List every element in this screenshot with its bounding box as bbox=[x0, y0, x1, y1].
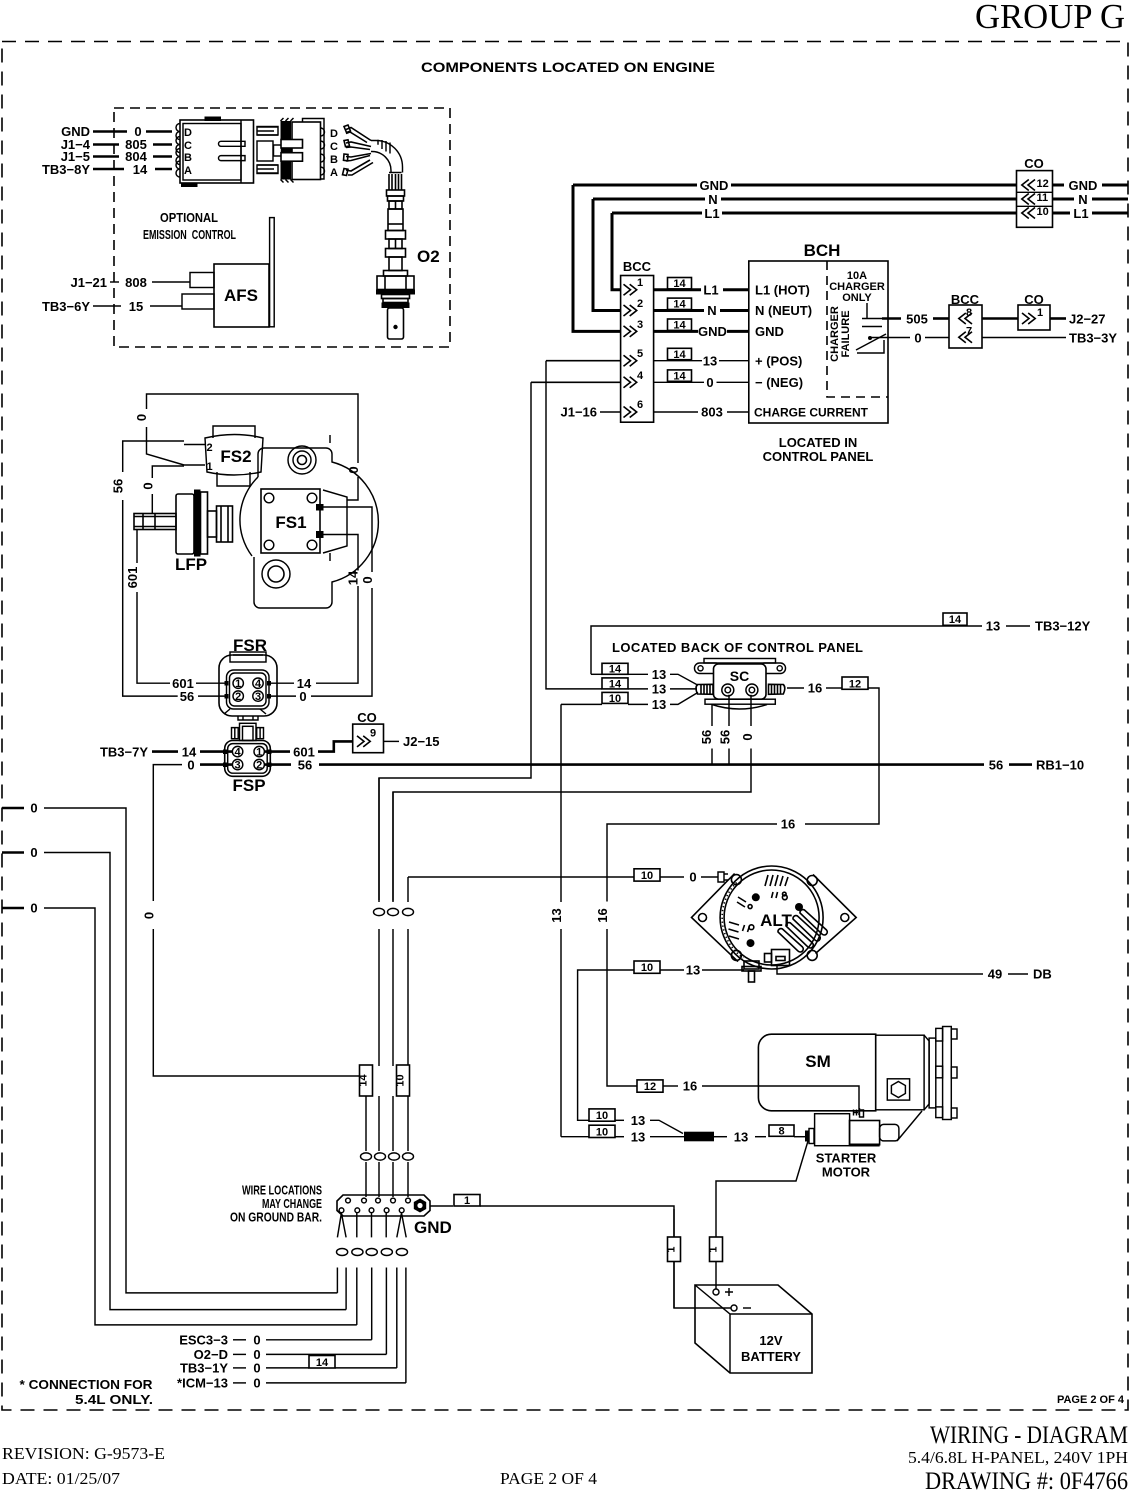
wire 601 (FSP pin1 to CO9) bbox=[264, 750, 290, 753]
main circles bbox=[720, 866, 823, 969]
svg-text:FSP: FSP bbox=[232, 776, 265, 795]
svg-text:14: 14 bbox=[949, 614, 962, 626]
svg-text:L1: L1 bbox=[703, 283, 718, 298]
wire 56 (FS2 pin2 down to FSR pin2) bbox=[123, 441, 184, 472]
svg-text:1: 1 bbox=[1037, 307, 1043, 319]
svg-text:0: 0 bbox=[914, 330, 921, 345]
svg-text:MOTOR: MOTOR bbox=[822, 1165, 871, 1180]
pin 1 bbox=[233, 678, 243, 688]
svg-text:ESC3−3: ESC3−3 bbox=[179, 1333, 228, 1348]
connector CO (pin 9) bbox=[353, 710, 384, 753]
pin 8 bbox=[959, 313, 972, 324]
pin 7 bbox=[959, 332, 972, 343]
svg-text:12: 12 bbox=[1037, 178, 1049, 190]
pin 3 bbox=[624, 326, 637, 337]
pin 2 bbox=[233, 691, 243, 701]
wire 13 fuse row1 bbox=[589, 1109, 615, 1121]
svg-text:CONTROL PANEL: CONTROL PANEL bbox=[763, 449, 874, 464]
svg-text:J1−21: J1−21 bbox=[70, 275, 107, 290]
svg-text:10: 10 bbox=[596, 1126, 608, 1138]
svg-text:0: 0 bbox=[30, 845, 37, 860]
pin 2 bbox=[624, 305, 637, 316]
pin 4 bbox=[232, 746, 242, 756]
svg-text:0: 0 bbox=[134, 414, 149, 421]
wire GND BCC3-BCH with gauge 14 bbox=[668, 319, 692, 330]
svg-text:LFP: LFP bbox=[175, 555, 207, 574]
wire 0 stub1 (left border) bbox=[2, 807, 24, 810]
solenoid FS2 bbox=[184, 426, 263, 486]
svg-text:L1: L1 bbox=[1073, 206, 1088, 221]
gauge 10 (vertical, ground wires) bbox=[397, 1065, 410, 1096]
svg-text:0: 0 bbox=[30, 901, 37, 916]
relay SC (starter contactor) bbox=[695, 659, 786, 710]
svg-text:*ICM−13: *ICM−13 bbox=[177, 1376, 228, 1391]
svg-text:TB3−6Y: TB3−6Y bbox=[42, 299, 90, 314]
svg-text:TB3−8Y: TB3−8Y bbox=[42, 162, 90, 177]
wire to J2-15 bbox=[384, 740, 400, 742]
svg-text:ALT: ALT bbox=[760, 911, 792, 930]
connector BCC (pins 1,2,3,5,4,6) bbox=[621, 259, 654, 422]
connector J (mating half with seals) bbox=[257, 118, 338, 183]
wire 0 from BCC4 going left bbox=[531, 381, 621, 383]
svg-text:3: 3 bbox=[235, 760, 241, 772]
svg-text:505: 505 bbox=[906, 312, 928, 327]
svg-text:14: 14 bbox=[346, 570, 361, 585]
svg-text:− (NEG): − (NEG) bbox=[755, 375, 803, 390]
svg-text:14: 14 bbox=[297, 676, 312, 691]
drive housing bbox=[876, 1035, 924, 1110]
svg-text:0: 0 bbox=[740, 733, 755, 740]
wire 16 (SC to SM) bbox=[787, 687, 804, 689]
svg-text:1: 1 bbox=[708, 1246, 720, 1252]
solenoid (starter) bbox=[805, 1111, 922, 1147]
svg-text:4: 4 bbox=[235, 747, 242, 759]
svg-text:EMISSION CONTROL: EMISSION CONTROL bbox=[143, 227, 236, 242]
svg-text:5.4L ONLY.: 5.4L ONLY. bbox=[75, 1392, 153, 1407]
connector BCC (pins 8,7) bbox=[949, 292, 982, 348]
wire 805 row bbox=[93, 143, 119, 146]
svg-text:12: 12 bbox=[644, 1081, 656, 1093]
svg-text:ON GROUND BAR.: ON GROUND BAR. bbox=[230, 1210, 322, 1225]
svg-text:AFS: AFS bbox=[224, 286, 258, 305]
pin 1 bbox=[254, 746, 264, 756]
taper + mounting plates bbox=[924, 1035, 929, 1110]
pin 10 bbox=[1022, 208, 1035, 219]
svg-text:C: C bbox=[184, 140, 192, 152]
wire 0 from BCH NEG down-left bbox=[379, 382, 531, 900]
connector plug on ALT bbox=[765, 950, 790, 966]
wire 0 (FS1 upper tab to FSR pin3) bbox=[324, 507, 373, 572]
svg-text:10: 10 bbox=[641, 870, 653, 882]
svg-text:L1 (HOT): L1 (HOT) bbox=[755, 283, 810, 298]
svg-text:3: 3 bbox=[637, 319, 643, 331]
svg-text:GND: GND bbox=[698, 324, 727, 339]
vent slots right (long) bbox=[778, 910, 827, 952]
wire 13 from BCC5 going left bbox=[546, 360, 621, 362]
svg-text:A: A bbox=[184, 165, 192, 177]
svg-text:* CONNECTION FOR: * CONNECTION FOR bbox=[20, 1377, 154, 1392]
svg-text:0: 0 bbox=[689, 870, 696, 885]
svg-text:0: 0 bbox=[30, 801, 37, 816]
wire entry notches bbox=[223, 750, 228, 755]
svg-text:OPTIONAL: OPTIONAL bbox=[160, 210, 218, 225]
svg-text:GND: GND bbox=[1069, 178, 1098, 193]
wire N (left of CO) bbox=[593, 198, 705, 201]
oval splices above bar bbox=[361, 1153, 372, 1160]
emission control dashed box bbox=[114, 108, 450, 347]
wire 14 (TB3-7Y to FSP pin4) bbox=[152, 750, 178, 753]
wire 56 drops from SC bbox=[711, 705, 713, 764]
svg-text:1: 1 bbox=[637, 277, 643, 289]
wire 49 (ALT plug to DB) bbox=[777, 966, 983, 975]
svg-text:STARTER: STARTER bbox=[816, 1151, 877, 1166]
bottom tab bbox=[238, 716, 258, 720]
knurl ticks on left arc bbox=[722, 883, 743, 959]
svg-text:SC: SC bbox=[730, 668, 749, 684]
O2 sensor body bbox=[376, 173, 415, 340]
pin 11 bbox=[1022, 194, 1035, 205]
wires into bar top (0 group) bbox=[365, 1096, 367, 1197]
svg-text:ONLY: ONLY bbox=[842, 292, 872, 304]
svg-text:BCC: BCC bbox=[623, 259, 652, 274]
ground stud (hex) bbox=[414, 1199, 426, 1213]
svg-text:D: D bbox=[184, 127, 192, 139]
svg-text:9: 9 bbox=[370, 728, 376, 740]
wire 601 (LFP to FSR pin1) bbox=[136, 530, 138, 564]
svg-text:14: 14 bbox=[609, 678, 622, 690]
svg-text:16: 16 bbox=[781, 817, 795, 832]
svg-text:7: 7 bbox=[966, 326, 972, 338]
svg-text:13: 13 bbox=[549, 908, 564, 922]
svg-text:A: A bbox=[330, 167, 338, 179]
svg-text:13: 13 bbox=[652, 682, 666, 697]
gauge 14 (vertical, ground wires) bbox=[360, 1065, 373, 1096]
wire N BCC2-BCH with gauge 14 bbox=[668, 298, 692, 309]
svg-text:GND: GND bbox=[755, 324, 784, 339]
pin bumps left bbox=[176, 124, 180, 178]
pin 12 bbox=[1022, 180, 1035, 191]
svg-text:10: 10 bbox=[1037, 206, 1049, 218]
svg-text:5.4/6.8L H-PANEL, 240V 1PH: 5.4/6.8L H-PANEL, 240V 1PH bbox=[908, 1448, 1128, 1467]
svg-text:REVISION: G-9573-E: REVISION: G-9573-E bbox=[2, 1444, 165, 1463]
svg-text:4: 4 bbox=[255, 678, 262, 690]
svg-text:6: 6 bbox=[637, 399, 643, 411]
svg-text:B: B bbox=[330, 154, 338, 166]
vent slots left bbox=[729, 897, 750, 939]
wire 0 drop from SC bbox=[393, 695, 751, 901]
svg-text:56: 56 bbox=[989, 757, 1003, 772]
svg-text:15: 15 bbox=[129, 299, 143, 314]
BCH internal dashed divider bbox=[827, 261, 888, 397]
O2 sensor pigtail wires bbox=[343, 125, 374, 176]
bolt boss bottom bbox=[262, 560, 290, 588]
svg-text:14: 14 bbox=[673, 349, 686, 361]
wire 13 fuse row2 (from SC) bbox=[561, 1136, 589, 1138]
svg-text:0: 0 bbox=[140, 482, 155, 489]
svg-text:13: 13 bbox=[986, 619, 1000, 634]
svg-text:TB3−12Y: TB3−12Y bbox=[1035, 619, 1091, 634]
wire 16 into starter solenoid bbox=[637, 1080, 663, 1092]
wire 13 vertical run bbox=[560, 704, 562, 902]
svg-text:14: 14 bbox=[673, 370, 686, 382]
svg-text:GROUP G: GROUP G bbox=[975, 0, 1125, 36]
svg-text:56: 56 bbox=[718, 730, 733, 744]
svg-text:13: 13 bbox=[686, 963, 700, 978]
connector J (engine harness, left half) bbox=[176, 117, 254, 188]
svg-text:13: 13 bbox=[734, 1129, 748, 1144]
gauge 1 (battery - wire) bbox=[668, 1237, 681, 1262]
svg-text:BCH: BCH bbox=[804, 241, 841, 260]
terminal + bbox=[713, 1289, 719, 1295]
pin 6 bbox=[624, 407, 637, 418]
svg-text:1: 1 bbox=[464, 1195, 470, 1207]
solenoid terminal bbox=[805, 1131, 809, 1142]
svg-text:TB3−7Y: TB3−7Y bbox=[100, 744, 148, 759]
svg-text:10: 10 bbox=[641, 962, 653, 974]
pin bumps right bbox=[321, 128, 325, 175]
wire 0 stub3 (left border) bbox=[2, 907, 24, 910]
svg-text:B: B bbox=[184, 152, 192, 164]
fuse (inline, black) bbox=[684, 1132, 714, 1142]
pin 5 bbox=[624, 355, 637, 366]
svg-text:FS1: FS1 bbox=[275, 513, 306, 532]
svg-text:8: 8 bbox=[966, 307, 972, 319]
svg-text:13: 13 bbox=[703, 353, 717, 368]
wire 14 row bbox=[93, 168, 124, 171]
wire to J2-27 bbox=[1050, 317, 1066, 320]
wire N drop to BCC pin2 bbox=[593, 199, 621, 311]
wire 13 (SC to TB3-12Y) bbox=[591, 626, 982, 674]
terminal tabs right bbox=[316, 504, 324, 511]
svg-text:GND: GND bbox=[414, 1218, 452, 1237]
pin 4 bbox=[253, 678, 263, 688]
svg-text:0: 0 bbox=[253, 1376, 260, 1391]
svg-text:1: 1 bbox=[235, 678, 241, 690]
svg-text:GND: GND bbox=[700, 178, 729, 193]
svg-text:803: 803 bbox=[701, 405, 723, 420]
svg-text:C: C bbox=[330, 141, 338, 153]
svg-text:1: 1 bbox=[666, 1246, 678, 1252]
sensor AFS bbox=[182, 218, 274, 327]
wire N (right of CO) bbox=[1053, 198, 1075, 201]
regulator FS1 bbox=[261, 489, 320, 553]
svg-text:8: 8 bbox=[778, 1126, 784, 1138]
wire battery - to ground stud bbox=[674, 1209, 731, 1308]
wire GND (bar to battery -) bbox=[430, 1205, 453, 1207]
wire GND drop to BCC pin3 bbox=[573, 185, 621, 331]
vent slots top bbox=[765, 875, 788, 886]
svg-text:0: 0 bbox=[299, 689, 306, 704]
svg-text:TB3−3Y: TB3−3Y bbox=[1069, 330, 1117, 345]
pin 4 bbox=[624, 377, 637, 388]
svg-text:LOCATED BACK OF CONTROL PANEL: LOCATED BACK OF CONTROL PANEL bbox=[612, 640, 863, 655]
gauge 1 (battery + wire) bbox=[710, 1237, 723, 1262]
prong cuts bbox=[281, 140, 303, 149]
pin 1 bbox=[1022, 313, 1035, 324]
bolt rings bbox=[731, 875, 741, 885]
svg-text:56: 56 bbox=[180, 689, 194, 704]
svg-text:14: 14 bbox=[673, 278, 686, 290]
inner dots bbox=[752, 893, 760, 901]
wire 13 row1 into SC bbox=[602, 663, 628, 674]
svg-text:0: 0 bbox=[141, 912, 156, 919]
svg-text:DRAWING #: 0F4766: DRAWING #: 0F4766 bbox=[925, 1468, 1128, 1495]
wire 13 (ALT B+ to fuse row1) bbox=[702, 969, 744, 971]
svg-text:2: 2 bbox=[235, 691, 241, 703]
svg-text:3: 3 bbox=[255, 691, 261, 703]
svg-text:49: 49 bbox=[988, 967, 1002, 982]
svg-text:D: D bbox=[330, 128, 338, 140]
connector CO (pin 1) bbox=[1018, 292, 1050, 330]
svg-text:1: 1 bbox=[256, 747, 262, 759]
svg-text:L1: L1 bbox=[704, 206, 719, 221]
terminal left (hatched) bbox=[696, 684, 713, 694]
svg-text:14: 14 bbox=[316, 1357, 329, 1369]
svg-text:CO: CO bbox=[1024, 156, 1044, 171]
svg-text:14: 14 bbox=[609, 664, 622, 676]
wire 505 (BCC8 to CO1) bbox=[982, 317, 1018, 320]
oval splices mid bbox=[374, 908, 385, 915]
svg-text:16: 16 bbox=[683, 1079, 697, 1094]
small ovals mid bbox=[772, 892, 787, 898]
wire 808 row bbox=[110, 281, 119, 283]
O2 sensor cable elbow bbox=[371, 141, 403, 173]
svg-text:0: 0 bbox=[360, 576, 375, 583]
wire 505 (charger failure to BCC8) bbox=[882, 317, 901, 320]
svg-text:PAGE 2 OF 4: PAGE 2 OF 4 bbox=[500, 1469, 597, 1488]
svg-text:DATE: 01/25/07: DATE: 01/25/07 bbox=[2, 1469, 121, 1488]
svg-text:2: 2 bbox=[207, 442, 213, 454]
connector CO (panel interconnect, pins 12/11/10) bbox=[1017, 156, 1053, 227]
alternator ALT body bbox=[692, 866, 857, 969]
valve body FS1 assembly bbox=[240, 435, 378, 608]
svg-text:12V: 12V bbox=[759, 1333, 782, 1348]
svg-text:N: N bbox=[707, 303, 716, 318]
wire 0 (FS2 pin1 down to LFP) bbox=[152, 466, 184, 478]
wire L1 BCC1-BCH with gauge 14 bbox=[668, 278, 692, 289]
svg-text:+ (POS): + (POS) bbox=[755, 353, 802, 368]
assembly outline bbox=[254, 448, 378, 608]
wire L1 drop to BCC pin1 bbox=[612, 213, 621, 290]
wire 13 row3 from SC (to starter motor) bbox=[602, 692, 628, 703]
svg-text:0: 0 bbox=[706, 375, 713, 390]
wire battery + (solenoid to battery) bbox=[716, 1141, 808, 1274]
svg-text:10: 10 bbox=[395, 1074, 407, 1086]
module BCH (battery charger) bbox=[749, 241, 888, 423]
svg-text:N (NEUT): N (NEUT) bbox=[755, 303, 812, 318]
svg-text:FAILURE: FAILURE bbox=[840, 310, 852, 357]
svg-text:J2−27: J2−27 bbox=[1069, 312, 1106, 327]
battery 12V body bbox=[695, 1285, 812, 1373]
svg-text:2: 2 bbox=[256, 760, 262, 772]
bolt boss top bbox=[288, 446, 316, 474]
wire GND (left of CO) bbox=[573, 184, 697, 187]
svg-text:14: 14 bbox=[673, 320, 686, 332]
svg-text:56: 56 bbox=[111, 479, 126, 493]
connector key prongs bbox=[219, 141, 246, 146]
oval splices below bar bbox=[337, 1249, 348, 1256]
svg-text:0: 0 bbox=[253, 1361, 260, 1376]
svg-text:PAGE 2 OF 4: PAGE 2 OF 4 bbox=[1057, 1394, 1125, 1406]
wire 0 (BCC7 to TB3-3Y) bbox=[982, 337, 1066, 339]
svg-text:CHARGE CURRENT: CHARGE CURRENT bbox=[754, 406, 869, 420]
svg-text:14: 14 bbox=[673, 299, 686, 311]
svg-text:10: 10 bbox=[596, 1110, 608, 1122]
pin 1 bbox=[624, 284, 637, 295]
svg-text:COMPONENTS LOCATED ON ENGINE: COMPONENTS LOCATED ON ENGINE bbox=[421, 59, 715, 75]
wire 0 (FSP pin3 to ground bar) bbox=[200, 763, 232, 766]
svg-text:1: 1 bbox=[207, 461, 213, 473]
pin 2 bbox=[254, 759, 264, 769]
FS2 pin stubs bbox=[184, 444, 205, 446]
wire L1 (left of CO) bbox=[612, 212, 702, 215]
right flange bbox=[813, 875, 856, 954]
connector FSP bbox=[223, 723, 272, 795]
svg-text:5: 5 bbox=[637, 348, 643, 360]
svg-text:CO: CO bbox=[357, 710, 377, 725]
bracket right bbox=[323, 490, 347, 553]
svg-text:SM: SM bbox=[805, 1052, 831, 1071]
wire 13 BCC5-BCH with gauge 14 bbox=[668, 348, 692, 359]
pump LFP bbox=[134, 490, 233, 557]
svg-text:FS2: FS2 bbox=[220, 447, 251, 466]
svg-text:56: 56 bbox=[298, 757, 312, 772]
svg-text:LOCATED IN: LOCATED IN bbox=[779, 435, 857, 450]
wire entry notches bbox=[225, 681, 229, 686]
svg-text:13: 13 bbox=[652, 667, 666, 682]
svg-text:10: 10 bbox=[609, 693, 621, 705]
wire GND (right of CO) bbox=[1053, 184, 1065, 187]
wire 56 (FSP pin2 to RB1-10, long run) bbox=[264, 763, 291, 766]
svg-text:2: 2 bbox=[637, 298, 643, 310]
svg-text:N: N bbox=[1078, 192, 1087, 207]
svg-text:601: 601 bbox=[125, 567, 140, 589]
ground bar bbox=[337, 1195, 430, 1216]
wire 0 stub2 (left border) bbox=[2, 851, 24, 854]
svg-text:BATTERY: BATTERY bbox=[741, 1349, 801, 1364]
svg-text:DB: DB bbox=[1033, 967, 1052, 982]
svg-text:WIRING - DIAGRAM: WIRING - DIAGRAM bbox=[930, 1422, 1128, 1449]
wire stubs under bar bottom row bbox=[337, 1213, 406, 1237]
svg-text:14: 14 bbox=[358, 1074, 370, 1087]
wire 0 (FS2 pin1 up and over to FS1) bbox=[147, 427, 185, 465]
svg-text:13: 13 bbox=[631, 1129, 645, 1144]
svg-text:J2−15: J2−15 bbox=[403, 734, 440, 749]
svg-text:16: 16 bbox=[808, 681, 822, 696]
terminal - bbox=[731, 1305, 737, 1311]
wire 14 (FS1 lower tab to FSR pin4) bbox=[324, 535, 359, 571]
pin 3 bbox=[232, 759, 242, 769]
terminal right (hatched) bbox=[769, 684, 785, 694]
svg-text:56: 56 bbox=[699, 730, 714, 744]
svg-text:13: 13 bbox=[631, 1113, 645, 1128]
wire 15 row bbox=[93, 305, 121, 307]
wire 13 row2 into SC (from BCH +POS) bbox=[546, 361, 602, 689]
svg-text:11: 11 bbox=[1037, 192, 1049, 204]
wire 804 row bbox=[93, 155, 119, 158]
motor SM body bbox=[758, 1034, 875, 1111]
contact charger failure bbox=[856, 303, 886, 353]
svg-text:O2: O2 bbox=[417, 247, 440, 266]
pin 3 bbox=[253, 691, 263, 701]
svg-text:16: 16 bbox=[595, 908, 610, 922]
terminal B+ on ALT bbox=[742, 961, 761, 982]
svg-text:N: N bbox=[708, 192, 717, 207]
wires between corners and gauge boxes bbox=[378, 778, 380, 1066]
wire L1 (right of CO) bbox=[1053, 212, 1071, 215]
wire GND-0 row bbox=[93, 130, 127, 133]
wire 803 (J1-16 to BCH) bbox=[600, 411, 621, 413]
